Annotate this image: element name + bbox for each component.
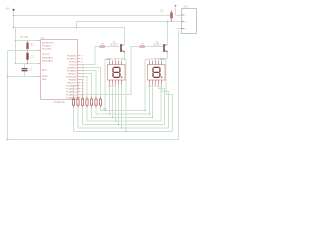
svg-text:PD1(TXD): PD1(TXD) (42, 49, 52, 51)
svg-text:4: 4 (82, 56, 84, 58)
svg-text:24: 24 (82, 89, 85, 91)
svg-text:PB1(OC1A): PB1(OC1A) (66, 76, 77, 79)
svg-text:6: 6 (82, 62, 84, 64)
svg-text:3: 3 (186, 28, 187, 30)
svg-text:PB5(SCK): PB5(SCK) (67, 83, 77, 85)
svg-text:PB6(XTAL1): PB6(XTAL1) (42, 57, 53, 60)
svg-text:1: 1 (186, 15, 187, 17)
svg-text:(RESET)PC6: (RESET)PC6 (42, 43, 55, 45)
svg-text:R8: R8 (102, 43, 106, 45)
svg-text:AVCC: AVCC (42, 69, 48, 72)
svg-text:PC0(ADC0): PC0(ADC0) (66, 85, 77, 88)
svg-text:PC1(ADC1): PC1(ADC1) (66, 88, 77, 91)
svg-text:PD4(T0): PD4(T0) (69, 62, 77, 64)
svg-text:R2: R2 (31, 44, 35, 47)
svg-text:R9: R9 (142, 43, 146, 45)
svg-text:16: 16 (82, 80, 85, 82)
svg-text:LED2: LED2 (159, 58, 166, 61)
svg-text:8 5 3 7 1: 8 5 3 7 1 (109, 86, 116, 88)
svg-text:C2: C2 (31, 56, 35, 59)
svg-text:PD0(RXD): PD0(RXD) (42, 46, 52, 48)
svg-text:PD7(AIN1): PD7(AIN1) (67, 70, 77, 73)
svg-text:PD3(INT1): PD3(INT1) (67, 59, 77, 61)
svg-text:D1: D1 (161, 10, 165, 13)
svg-text:25: 25 (82, 92, 85, 94)
svg-text:GND: GND (42, 79, 47, 81)
svg-text:SV1: SV1 (184, 6, 189, 9)
svg-text:R1 10k: R1 10k (21, 36, 29, 39)
svg-text:PC3(ADC3): PC3(ADC3) (66, 94, 77, 97)
svg-text:2: 2 (186, 21, 187, 23)
svg-text:5: 5 (82, 59, 84, 61)
svg-text:PB0(ICP): PB0(ICP) (68, 74, 77, 76)
svg-text:19: 19 (82, 83, 85, 85)
svg-text:27: 27 (82, 98, 85, 100)
svg-text:9 1 6 4 2: 9 1 6 4 2 (149, 59, 156, 61)
svg-text:AGND: AGND (42, 75, 48, 78)
svg-text:PC2(ADC2): PC2(ADC2) (66, 91, 77, 94)
svg-text:C1: C1 (30, 69, 34, 72)
svg-text:ATMEGA8: ATMEGA8 (54, 101, 66, 104)
svg-text:PB2(SS): PB2(SS) (69, 80, 77, 82)
svg-text:8 5 3 7 1: 8 5 3 7 1 (149, 86, 156, 88)
svg-text:BC557: BC557 (154, 44, 162, 47)
svg-text:PB7(XTAL2): PB7(XTAL2) (42, 60, 53, 63)
svg-text:GND: GND (103, 109, 108, 111)
svg-text:23: 23 (82, 86, 85, 88)
svg-text:BC557: BC557 (111, 44, 119, 47)
svg-text:PD5(T1): PD5(T1) (42, 54, 50, 56)
svg-text:PD2(INT0): PD2(INT0) (67, 56, 77, 58)
svg-text:PD6(AIN0): PD6(AIN0) (67, 67, 77, 70)
svg-text:+5V: +5V (6, 8, 11, 11)
svg-text:LED1: LED1 (106, 58, 113, 61)
svg-text:IC1: IC1 (41, 37, 45, 40)
svg-text:PC4(ADC4): PC4(ADC4) (66, 97, 77, 100)
svg-text:PD5(T1): PD5(T1) (69, 65, 77, 67)
